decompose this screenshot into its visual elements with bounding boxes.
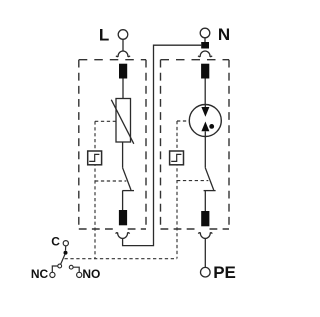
pivot junction dot bbox=[64, 251, 68, 255]
terminal NC bbox=[50, 272, 55, 277]
wire NO contact to NO terminal bbox=[73, 267, 79, 272]
junction node N (square) bbox=[201, 42, 209, 49]
wire switch to fuse (L branch) bbox=[122, 191, 124, 210]
plug-in connector socket at L bbox=[116, 51, 130, 57]
triggered spark gap U1 bbox=[189, 105, 221, 137]
plug-in connector socket at L branch bottom bbox=[116, 233, 130, 239]
wire switch to fuse (N branch) bbox=[204, 191, 206, 211]
svg-text:NO: NO bbox=[82, 267, 100, 281]
mechanical linkage dashed line: varistor thermal disconnect bbox=[95, 121, 126, 258]
terminal C bbox=[63, 241, 68, 246]
thermal switch (spark-gap branch) bbox=[170, 151, 184, 165]
varistor RV1 bbox=[111, 99, 134, 144]
disconnect element (N branch, bottom black) bbox=[201, 211, 209, 226]
plug-in connector socket at N bbox=[198, 51, 212, 57]
changeover lever bbox=[61, 255, 65, 265]
thermal switch (varistor branch) bbox=[88, 151, 102, 165]
wire C to pivot bbox=[65, 246, 67, 251]
svg-text:N: N bbox=[218, 25, 230, 44]
thermal disconnect element (N branch, top black) bbox=[201, 64, 209, 79]
svg-text:C: C bbox=[51, 234, 60, 248]
fixed contact tick (L branch) bbox=[122, 190, 134, 192]
terminal L bbox=[118, 30, 128, 40]
wire varistor to switch bbox=[122, 142, 124, 168]
terminal NO bbox=[77, 272, 82, 277]
plug-in connector socket at PE side bbox=[198, 233, 212, 239]
wire NC contact to NC terminal bbox=[52, 266, 58, 272]
wire fuse to spark gap bbox=[204, 79, 206, 105]
wire N terminal to junction bbox=[204, 38, 206, 42]
mechanical linkage dashed line: spark-gap thermal disconnect bbox=[177, 121, 208, 259]
mechanical linkage dashed line: to changeover contact bbox=[65, 258, 178, 260]
wire varistor branch bottom to N bus bbox=[123, 45, 202, 245]
svg-text:L: L bbox=[99, 26, 109, 45]
wire spark gap to switch bbox=[204, 137, 206, 168]
enclosure dashed box: spark-gap module bbox=[161, 60, 230, 229]
enclosure dashed box: varistor module bbox=[79, 60, 146, 229]
disconnect element (L branch, bottom black) bbox=[119, 210, 127, 225]
NO fixed contact bbox=[69, 265, 73, 269]
disconnect switch blade (N branch) bbox=[205, 168, 213, 190]
NC fixed contact bbox=[58, 264, 62, 268]
svg-text:PE: PE bbox=[213, 263, 236, 282]
wire to PE terminal bbox=[204, 238, 206, 267]
thermal disconnect element (L branch, top black) bbox=[119, 64, 127, 79]
wire L terminal to connector bbox=[122, 39, 124, 51]
terminal PE bbox=[201, 267, 211, 277]
terminal N bbox=[200, 28, 210, 38]
svg-text:NC: NC bbox=[31, 267, 49, 281]
disconnect switch blade (L branch) bbox=[123, 168, 131, 190]
wire fuse to varistor bbox=[122, 79, 124, 99]
fixed contact tick (N branch) bbox=[204, 190, 216, 192]
